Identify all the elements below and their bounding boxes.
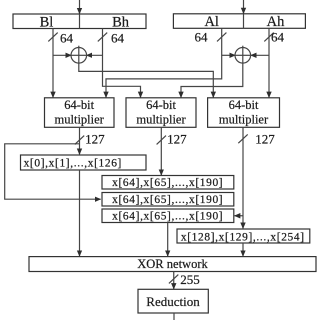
svg-text:multiplier: multiplier — [55, 113, 105, 127]
svg-text:Reduction: Reduction — [146, 294, 200, 309]
svg-text:x[64],x[65],...,x[190]: x[64],x[65],...,x[190] — [112, 177, 223, 189]
svg-text:64: 64 — [271, 30, 285, 45]
bus slash Ah — [264, 33, 273, 42]
wire: input into A register — [243, 0, 245, 14]
wire right multiplier output to x[128..254] box — [242, 127, 244, 228]
XOR network box — [29, 257, 316, 272]
shift row 1 box x[64..190] — [102, 176, 234, 190]
shift row 3 box x[64..190] — [102, 209, 234, 223]
bus slash Bl — [48, 33, 57, 42]
wire Ah down to right multiplier — [268, 28, 270, 97]
wire right product branch to shift row 3 — [235, 215, 243, 217]
svg-text:multiplier: multiplier — [219, 113, 269, 127]
bus slash Al — [217, 33, 226, 42]
wire left product branch to shift row 2 — [5, 144, 101, 199]
svg-text:64: 64 — [111, 31, 125, 46]
wire: input into B register — [79, 0, 81, 14]
svg-text:127: 127 — [167, 131, 187, 146]
wire Ah branch to XOR2 — [251, 54, 269, 56]
wire x[0..126] to XOR network — [79, 170, 81, 256]
svg-text:64: 64 — [60, 31, 74, 46]
svg-text:255: 255 — [180, 272, 200, 287]
wire Al down, across to left multiplier input 2 — [106, 28, 222, 97]
svg-text:64: 64 — [195, 30, 209, 45]
wire middle multiplier output to row 1 — [160, 127, 162, 175]
svg-text:64-bit: 64-bit — [229, 98, 259, 112]
bus slash 127 right — [238, 134, 247, 143]
svg-text:XOR network: XOR network — [137, 257, 208, 271]
svg-text:64-bit: 64-bit — [64, 98, 94, 112]
svg-text:127: 127 — [85, 131, 105, 146]
svg-text:x[128],x[129],...,x[254]: x[128],x[129],...,x[254] — [181, 232, 305, 244]
svg-text:multiplier: multiplier — [136, 113, 186, 127]
wire rows to XOR network — [167, 223, 169, 257]
box x[0..126] — [21, 155, 147, 170]
register A (Al|Ah) — [173, 14, 305, 28]
Reduction box — [138, 289, 208, 313]
svg-text:Al: Al — [204, 14, 219, 30]
node divider A — [243, 14, 245, 28]
wire XOR1 output to right multiplier input 1 — [79, 63, 214, 97]
bus slash 127 middle — [157, 136, 166, 145]
wire Bh branch to XOR1 — [86, 54, 102, 56]
wire Al branch to XOR2 — [222, 54, 236, 56]
svg-text:Bh: Bh — [112, 14, 130, 30]
shift row 2 box x[64..190] — [102, 193, 234, 207]
wire Bl down to left multiplier — [52, 29, 54, 98]
XOR gate 2 (Al ^ Ah) — [235, 48, 251, 64]
svg-text:Ah: Ah — [267, 14, 285, 30]
multiplier box left — [45, 98, 115, 128]
wire XOR2 output to middle multiplier input 2 — [181, 63, 243, 97]
wire XOR network to Reduction — [173, 272, 175, 289]
wire Reduction output — [173, 313, 175, 320]
svg-text:x[64],x[65],...,x[190]: x[64],x[65],...,x[190] — [112, 194, 223, 206]
register B (Bl|Bh) — [13, 14, 146, 29]
multiplier box middle — [126, 98, 196, 128]
bus slash 255 — [169, 275, 178, 284]
svg-text:x[64],x[65],...,x[190]: x[64],x[65],...,x[190] — [112, 211, 223, 223]
wire x[128..254] to XOR network — [242, 243, 244, 256]
XOR gate 1 (Bl ^ Bh) — [71, 48, 87, 64]
wire Bh down — [103, 29, 141, 98]
node divider B — [79, 14, 81, 29]
svg-text:Bl: Bl — [40, 14, 54, 30]
svg-text:x[0],x[1],...,x[126]: x[0],x[1],...,x[126] — [24, 157, 122, 169]
bus slash Bh — [98, 33, 107, 42]
svg-text:127: 127 — [255, 132, 275, 147]
wire Bl branch to XOR1 — [53, 54, 71, 56]
box x[128..254] — [177, 229, 310, 243]
svg-text:64-bit: 64-bit — [146, 98, 176, 112]
wire left multiplier output to x[0..126] box — [79, 127, 81, 154]
multiplier box right — [208, 98, 280, 128]
bus slash 127 left — [75, 136, 84, 145]
